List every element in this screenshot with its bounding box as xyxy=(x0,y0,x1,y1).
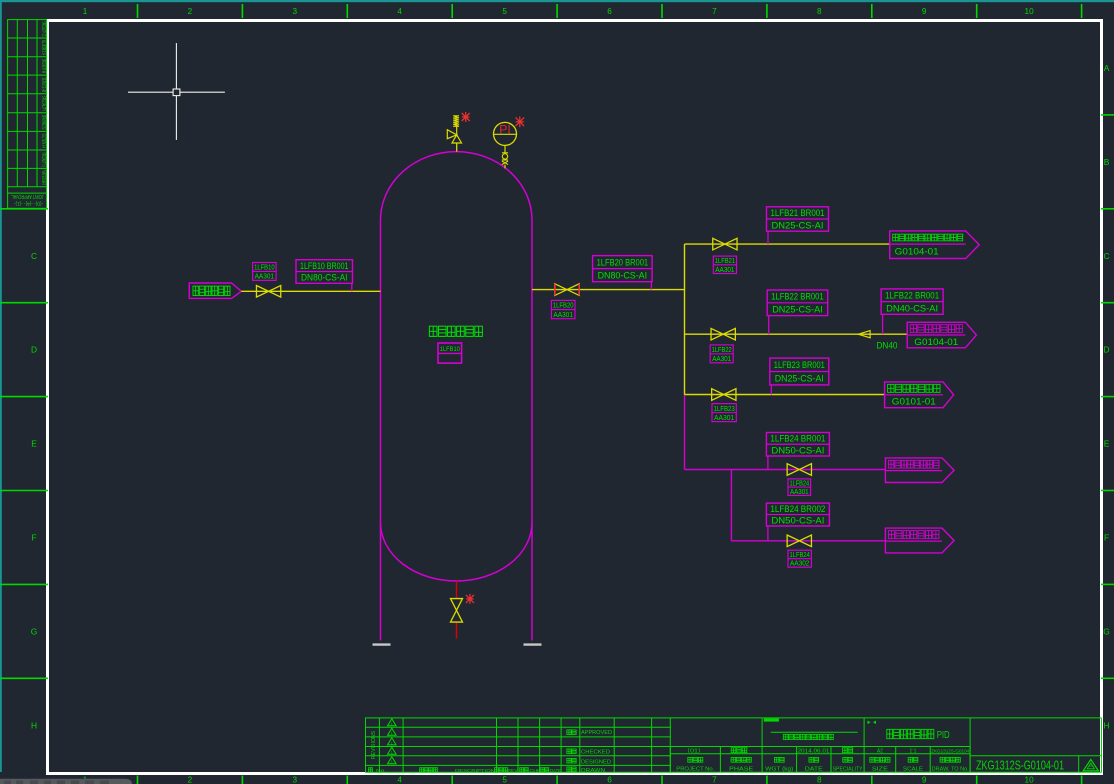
svg-text:WGT (kg): WGT (kg) xyxy=(765,767,793,773)
svg-text:WATER&AIR: WATER&AIR xyxy=(40,171,46,186)
svg-text:DESIGNED: DESIGNED xyxy=(581,759,611,765)
svg-text:H: H xyxy=(1103,720,1109,730)
svg-text:SECTION 3-4: SECTION 3-4 xyxy=(40,134,46,149)
svg-text:1LFB24: 1LFB24 xyxy=(790,480,810,488)
svg-text:D: D xyxy=(31,345,37,355)
svg-text:G0104-01: G0104-01 xyxy=(895,247,939,258)
svg-text:8: 8 xyxy=(817,7,822,16)
svg-text:C: C xyxy=(31,251,37,261)
svg-text:1LFB22 BR001: 1LFB22 BR001 xyxy=(771,292,824,302)
svg-text:A: A xyxy=(1104,63,1110,73)
svg-text:-(0)- -(4)- -(1)-: -(0)- -(4)- -(1)- xyxy=(14,200,43,206)
svg-text:E: E xyxy=(1104,439,1110,449)
svg-text:2014.06.01: 2014.06.01 xyxy=(798,748,830,754)
svg-text:SPECIALITY 3: SPECIALITY 3 xyxy=(40,153,46,167)
svg-text:7: 7 xyxy=(712,7,717,16)
svg-text:D: D xyxy=(1103,345,1109,355)
svg-text:1LFB20: 1LFB20 xyxy=(553,302,574,310)
svg-text:G0104-01: G0104-01 xyxy=(914,337,958,348)
svg-text:1LFB10: 1LFB10 xyxy=(440,346,460,353)
svg-text:SPECIALITY: SPECIALITY xyxy=(833,767,864,773)
svg-text:3: 3 xyxy=(293,776,298,784)
svg-text:1: 1 xyxy=(391,751,393,755)
svg-text:1: 1 xyxy=(391,741,393,745)
svg-text:DN25-CS-AI: DN25-CS-AI xyxy=(772,220,824,230)
svg-text:REV: REV xyxy=(508,768,519,773)
svg-text:PI: PI xyxy=(499,125,511,137)
svg-text:SERVICE 48: SERVICE 48 xyxy=(40,78,46,93)
svg-text:APPROVED: APPROVED xyxy=(581,730,612,736)
svg-text:DN50-CS-AI: DN50-CS-AI xyxy=(771,516,824,526)
svg-text:DATE: DATE xyxy=(550,768,561,773)
svg-text:AA302: AA302 xyxy=(790,560,809,568)
svg-text:1LFB23 BR001: 1LFB23 BR001 xyxy=(774,360,825,370)
svg-text:4: 4 xyxy=(397,776,402,784)
svg-text:1LFB22 BR001: 1LFB22 BR001 xyxy=(885,291,939,301)
svg-text:1:1: 1:1 xyxy=(910,748,917,754)
svg-text:9: 9 xyxy=(922,776,927,784)
svg-text:PID: PID xyxy=(937,730,950,741)
svg-text:1: 1 xyxy=(391,760,393,764)
svg-text:6: 6 xyxy=(607,7,612,16)
svg-text:G0101-01: G0101-01 xyxy=(892,397,936,408)
svg-text:G: G xyxy=(1103,626,1110,636)
svg-text:1LFB20 BR001: 1LFB20 BR001 xyxy=(597,257,649,267)
svg-text:SCALE: SCALE xyxy=(903,767,924,773)
svg-text:1: 1 xyxy=(391,722,393,726)
svg-text:1LFB21 BR001: 1LFB21 BR001 xyxy=(771,208,825,218)
svg-text:JOINT APPROVAL.: JOINT APPROVAL. xyxy=(11,193,44,199)
svg-text:1LFB24 BR001: 1LFB24 BR001 xyxy=(770,434,825,444)
svg-text:9: 9 xyxy=(922,7,927,16)
svg-text:5: 5 xyxy=(502,776,507,784)
svg-text:PHASE: PHASE xyxy=(729,767,754,773)
svg-text:2: 2 xyxy=(188,7,193,16)
svg-text:PROJECT No.: PROJECT No. xyxy=(676,767,714,773)
svg-text:DESCRIPTION: DESCRIPTION xyxy=(455,768,496,774)
svg-text:1LFB10: 1LFB10 xyxy=(254,264,275,272)
svg-text:DRAWN: DRAWN xyxy=(581,768,605,774)
svg-text:DN25-CS-AI: DN25-CS-AI xyxy=(772,305,823,315)
svg-text:F: F xyxy=(31,533,36,543)
svg-text:SIZE: SIZE xyxy=(872,767,889,773)
svg-text:DRAWINGS 52: DRAWINGS 52 xyxy=(40,115,46,130)
svg-text:ZKG1312S-G0104: ZKG1312S-G0104 xyxy=(931,748,970,753)
svg-text:DATE: DATE xyxy=(805,767,824,773)
svg-text:DN40-CS-AI: DN40-CS-AI xyxy=(886,303,938,313)
svg-text:DN50-CS-AI: DN50-CS-AI xyxy=(771,445,824,455)
svg-text:B: B xyxy=(1104,157,1110,167)
svg-text:1LFB23: 1LFB23 xyxy=(714,405,735,413)
svg-text:ALL WORKS 34: ALL WORKS 34 xyxy=(40,40,46,55)
svg-text:SPECIALITY G5: SPECIALITY G5 xyxy=(40,22,46,37)
svg-text:1: 1 xyxy=(391,732,393,736)
svg-text:DN80-CS-AI: DN80-CS-AI xyxy=(598,270,648,280)
svg-text:3: 3 xyxy=(293,7,298,16)
svg-text:1LFB24: 1LFB24 xyxy=(790,551,810,559)
svg-text:1LFB22: 1LFB22 xyxy=(712,346,732,354)
svg-text:AA301: AA301 xyxy=(790,488,809,496)
svg-text:DN40: DN40 xyxy=(877,341,898,351)
svg-text:AA301: AA301 xyxy=(715,266,734,274)
svg-text:CHECKED: CHECKED xyxy=(581,750,610,756)
svg-text:REVISIONS: REVISIONS xyxy=(371,730,377,759)
svg-text:6: 6 xyxy=(607,776,612,784)
svg-text:1: 1 xyxy=(83,7,88,16)
svg-text:CHK: CHK xyxy=(530,768,542,773)
svg-text:ZKG1312S-G0104-01: ZKG1312S-G0104-01 xyxy=(976,758,1064,773)
svg-text:5: 5 xyxy=(502,7,507,16)
svg-text:E: E xyxy=(31,439,37,449)
svg-text:DN25-CS-AI: DN25-CS-AI xyxy=(775,374,824,384)
svg-text:DRAW. TO No.: DRAW. TO No. xyxy=(932,767,969,773)
svg-text:H: H xyxy=(31,720,37,730)
svg-text:G: G xyxy=(31,626,38,636)
svg-text:AA301: AA301 xyxy=(712,355,731,363)
svg-text:No.: No. xyxy=(376,768,386,773)
svg-text:10: 10 xyxy=(1025,776,1035,784)
svg-text:1LFB24 BR002: 1LFB24 BR002 xyxy=(770,504,825,514)
svg-text:SPECIALITY: SPECIALITY xyxy=(40,96,46,111)
svg-text:2: 2 xyxy=(188,776,193,784)
svg-text:A2: A2 xyxy=(877,748,883,754)
svg-text:C: C xyxy=(1103,251,1109,261)
svg-text:AA301: AA301 xyxy=(553,311,573,319)
svg-text:1LFB10 BR001: 1LFB10 BR001 xyxy=(300,261,349,271)
svg-text:7: 7 xyxy=(712,776,717,784)
svg-text:AA301: AA301 xyxy=(714,414,734,422)
svg-text:AA301: AA301 xyxy=(255,273,275,281)
svg-text:4: 4 xyxy=(397,7,402,16)
svg-text:1LFB21: 1LFB21 xyxy=(715,257,735,265)
svg-text:〔01〕: 〔01〕 xyxy=(683,748,705,754)
svg-text:10: 10 xyxy=(1025,7,1035,16)
svg-text:SPECIALITY 44: SPECIALITY 44 xyxy=(40,59,46,73)
svg-text:DN80-CS-AI: DN80-CS-AI xyxy=(301,273,348,283)
svg-text:8: 8 xyxy=(817,776,822,784)
svg-text:F: F xyxy=(1104,533,1109,543)
